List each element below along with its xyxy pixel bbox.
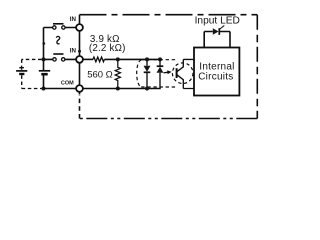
diode D2 lead top <box>159 59 161 66</box>
wire row1 horizontal <box>44 27 77 29</box>
stub below COM terminal <box>79 92 81 94</box>
wire row2 main to internal box <box>104 58 160 60</box>
photocoupler outline bottom dashed <box>141 86 176 88</box>
LED triangle <box>213 28 219 34</box>
node dot D1 top <box>145 57 149 61</box>
diode D2 lead bottom <box>159 73 161 89</box>
leader line from label to LED <box>220 26 225 29</box>
dashed supply branch horizontal top <box>22 58 42 60</box>
node junction bottom left <box>42 87 46 91</box>
unit boundary top chain line <box>80 14 258 16</box>
battery B2 long plate <box>16 70 27 72</box>
diode D2 cathode bar <box>157 65 164 67</box>
input LED loop left vertical <box>203 32 205 48</box>
unit boundary left dashed line <box>79 95 81 119</box>
node dot D1 bottom <box>145 87 149 91</box>
node dot on left column <box>42 42 45 45</box>
bottom COM wire <box>44 88 161 90</box>
node junction row2 <box>42 57 46 61</box>
unit boundary right chain line <box>256 15 258 119</box>
internal circuits box <box>194 48 239 96</box>
diode D1 lead top <box>146 59 148 65</box>
battery B2 short plate <box>19 73 24 75</box>
transistor Q1 emitter <box>177 75 194 89</box>
node dot R2 bottom <box>116 87 120 91</box>
node dot D2 top <box>158 57 162 61</box>
unit boundary bottom chain line <box>80 118 258 120</box>
transistor Q1 collector <box>177 59 194 71</box>
wire row2 horizontal left of switch <box>44 58 77 60</box>
switch S2 actuator bar <box>53 53 63 55</box>
svg-text:(2.2 kΩ): (2.2 kΩ) <box>89 43 126 54</box>
photocoupler outline top dashed <box>141 59 176 61</box>
node dot above IN2 <box>78 50 81 53</box>
dashed supply branch horizontal bottom <box>22 88 42 90</box>
svg-text:IN: IN <box>70 47 77 54</box>
dashed supply branch left vertical upper <box>21 59 23 65</box>
svg-text:Input LED: Input LED <box>195 15 240 26</box>
wire between IN1 and IN2 terminals <box>79 31 81 56</box>
input LED loop top wire <box>204 31 230 33</box>
resistor R2 560 vertical zigzag <box>115 59 120 88</box>
svg-text:560 Ω: 560 Ω <box>87 70 113 81</box>
photocoupler outline left dashed arc <box>137 60 142 87</box>
dashed supply branch left vertical lower <box>21 75 23 88</box>
diode D2 triangle up <box>157 67 164 73</box>
node dot R2 top <box>116 57 120 61</box>
diode D1 lead bottom <box>146 72 148 88</box>
input LED loop right vertical <box>229 32 231 48</box>
battery B2 plus sign <box>19 66 24 70</box>
svg-text:IN: IN <box>70 16 77 23</box>
resistor R1 3.9k zigzag <box>93 57 104 62</box>
terminal IN2 circle <box>76 56 83 63</box>
diode D1 cathode bar <box>144 71 151 73</box>
LED cathode bar <box>218 28 220 35</box>
diode D1 triangle down <box>144 66 151 72</box>
switch S1 contact circles <box>53 26 56 29</box>
switch S2 contact circles <box>53 58 56 61</box>
terminal IN1 circle <box>76 24 83 31</box>
wire riser from IN terminal 1 to boundary corner <box>79 15 81 25</box>
transistor Q1 base bar <box>176 68 178 78</box>
battery B1 short plate <box>41 73 47 76</box>
AC tilde symbol <box>56 36 60 43</box>
svg-text:Circuits: Circuits <box>198 72 233 83</box>
wire row2 from IN2 to resistor <box>83 58 93 60</box>
phototransistor dashed circle <box>172 63 193 84</box>
battery B1 long plate <box>39 70 50 72</box>
switch S1 actuator bar <box>53 23 64 25</box>
svg-text:COM: COM <box>61 81 74 87</box>
wire between IN2 and COM terminals <box>79 63 81 85</box>
wire left vertical column <box>43 28 45 89</box>
light arrow from LED to transistor <box>164 71 169 74</box>
terminal COM circle <box>76 85 83 92</box>
